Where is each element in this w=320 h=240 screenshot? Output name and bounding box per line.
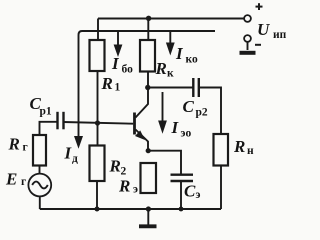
svg-text:C: C (183, 97, 195, 116)
svg-text:R: R (155, 59, 167, 78)
svg-text:U: U (257, 20, 270, 39)
svg-text:ип: ип (273, 29, 287, 41)
svg-text:к: к (167, 68, 174, 80)
svg-text:E: E (5, 169, 17, 188)
svg-text:р1: р1 (40, 106, 52, 118)
svg-text:г: г (21, 176, 26, 188)
svg-text:R: R (8, 134, 20, 153)
svg-text:д: д (72, 153, 78, 165)
svg-text:э: э (196, 189, 201, 201)
svg-text:C: C (184, 181, 196, 200)
svg-text:R: R (101, 74, 113, 93)
svg-text:бо: бо (122, 64, 134, 76)
svg-text:эо: эо (181, 128, 192, 140)
svg-text:ко: ко (186, 54, 198, 66)
svg-text:р2: р2 (196, 107, 208, 119)
svg-text:R: R (118, 177, 130, 196)
svg-text:R: R (233, 137, 245, 156)
svg-text:R: R (109, 157, 121, 176)
svg-text:н: н (247, 145, 254, 157)
svg-text:г: г (23, 142, 28, 154)
svg-text:э: э (133, 183, 138, 195)
svg-text:1: 1 (115, 82, 121, 94)
